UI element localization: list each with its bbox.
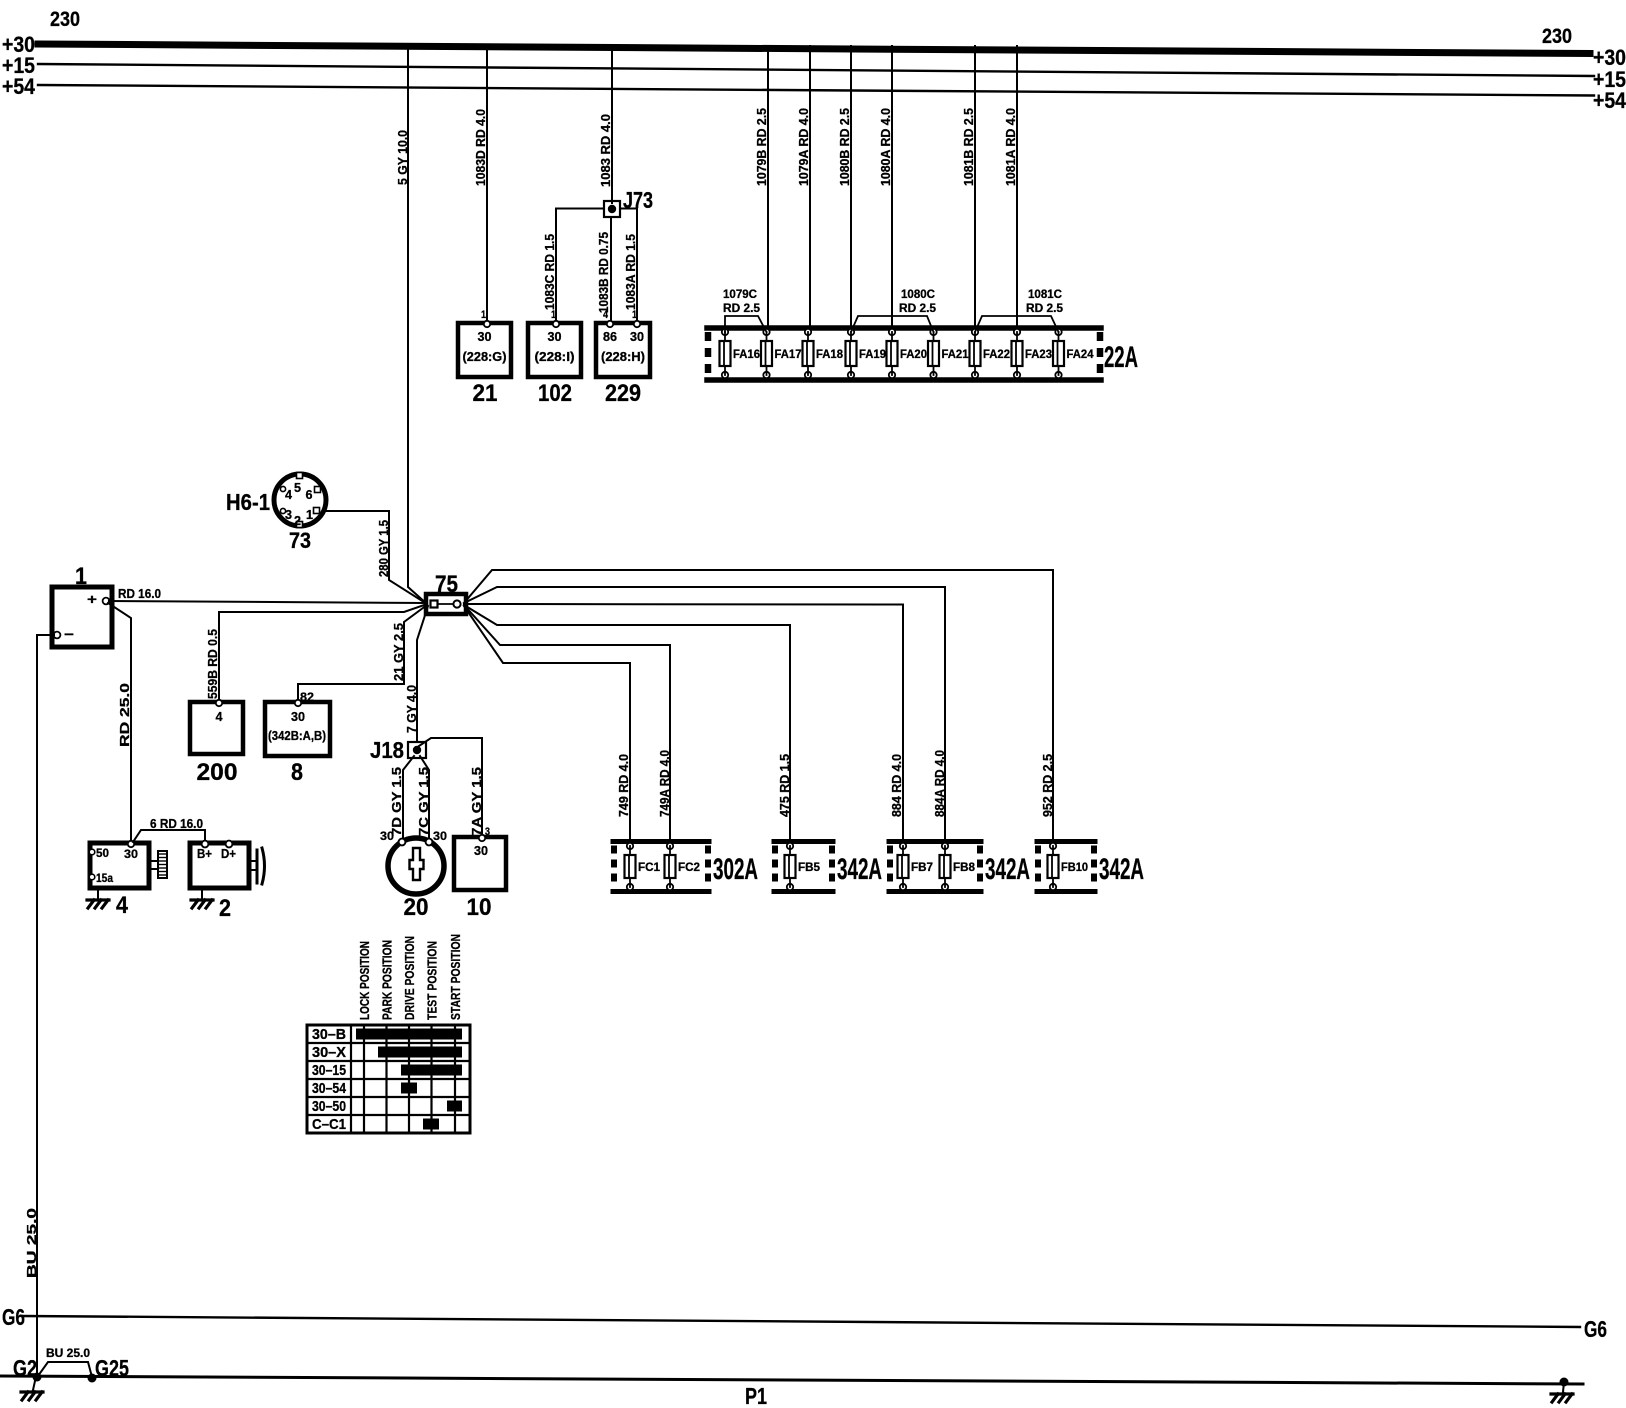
- jumper wire 1079C RD 2.5 (FA16 to FA17): [723, 287, 767, 332]
- svg-text:FB5: FB5: [798, 862, 821, 874]
- wire 1083A RD 1.5 (J73 to relay 229 pin 1/30): [620, 209, 638, 324]
- fusebox 342A with fuse FB5: [774, 842, 882, 892]
- svg-text:4: 4: [285, 488, 292, 502]
- wire 1080B RD 2.5 (+30 to fusebox 22A): [837, 46, 852, 330]
- svg-text:FA16: FA16: [733, 349, 760, 361]
- svg-text:230: 230: [1542, 25, 1572, 48]
- svg-text:102: 102: [538, 380, 572, 407]
- svg-text:B+: B+: [197, 847, 212, 861]
- svg-text:30: 30: [124, 847, 138, 861]
- connector 102 (228:I) pin 30: [528, 321, 581, 407]
- svg-text:2: 2: [294, 514, 301, 528]
- svg-text:5: 5: [294, 481, 301, 495]
- wire 1083B RD 0.75 (J73 to relay 229 pin 4/86): [596, 217, 611, 323]
- fuse FA19: [846, 329, 887, 378]
- fusebox 22A housing: [707, 328, 1138, 380]
- svg-text:G25: G25: [95, 1355, 129, 1381]
- svg-text:H6-1: H6-1: [226, 489, 270, 515]
- svg-text:1: 1: [551, 309, 556, 321]
- chassis ground at right end of P1: [1551, 1378, 1573, 1403]
- svg-text:1079C: 1079C: [723, 287, 757, 301]
- wire 7C GY 1.5 (J18 to switch 20 pin 30 right): [417, 756, 431, 840]
- svg-text:559B RD 0.5: 559B RD 0.5: [206, 629, 220, 699]
- svg-text:−: −: [64, 626, 74, 642]
- svg-text:FA18: FA18: [816, 349, 844, 361]
- jumper wire 1080C RD 2.5 (FA19 to FA21): [851, 287, 936, 332]
- svg-text:START POSITION: START POSITION: [448, 934, 463, 1020]
- svg-text:G6: G6: [1584, 1316, 1607, 1342]
- bus +15: [2, 53, 1626, 92]
- svg-text:1083B RD 0.75: 1083B RD 0.75: [596, 232, 611, 313]
- svg-text:+54: +54: [1593, 88, 1626, 113]
- svg-text:FC2: FC2: [678, 862, 700, 874]
- svg-text:FA23: FA23: [1025, 349, 1052, 361]
- svg-text:75: 75: [435, 571, 458, 598]
- svg-text:FA19: FA19: [859, 349, 886, 361]
- svg-text:50: 50: [96, 846, 109, 860]
- svg-text:FC1: FC1: [638, 862, 661, 874]
- svg-text:(342B:A,B): (342B:A,B): [268, 729, 326, 743]
- wire 280 GY 1.5 (H6-1 pin1 to junction 75): [326, 511, 427, 604]
- svg-text:1: 1: [306, 508, 313, 522]
- svg-text:3: 3: [485, 826, 490, 838]
- unit 200 pin 4: [190, 700, 243, 786]
- svg-text:229: 229: [605, 380, 641, 407]
- svg-text:73: 73: [289, 528, 311, 553]
- svg-text:342A: 342A: [1099, 853, 1144, 886]
- svg-text:1080A RD 4.0: 1080A RD 4.0: [878, 108, 893, 186]
- svg-text:30: 30: [630, 329, 644, 344]
- svg-text:7C GY 1.5: 7C GY 1.5: [417, 767, 431, 836]
- fuse FA18: [803, 329, 844, 378]
- wire 21 GY 2.5 (junction 75 to unit 8 pin 82): [298, 605, 427, 704]
- connector H6-1 (unit 73): [226, 473, 326, 554]
- svg-text:20: 20: [404, 894, 429, 921]
- svg-text:(228:G): (228:G): [463, 350, 507, 364]
- svg-text:1081A RD 4.0: 1081A RD 4.0: [1003, 108, 1018, 186]
- svg-text:30: 30: [548, 329, 562, 344]
- svg-text:30–15: 30–15: [312, 1062, 346, 1079]
- svg-text:FA17: FA17: [775, 349, 802, 361]
- svg-text:280 GY 1.5: 280 GY 1.5: [377, 520, 391, 577]
- svg-text:200: 200: [197, 759, 238, 786]
- svg-text:5 GY 10.0: 5 GY 10.0: [395, 130, 410, 185]
- starter motor 4 (pins 50 15a 30) with solenoid coil: [89, 841, 167, 919]
- svg-text:1080B RD 2.5: 1080B RD 2.5: [837, 108, 852, 186]
- svg-text:749 RD 4.0: 749 RD 4.0: [617, 754, 631, 817]
- svg-text:1079A RD 4.0: 1079A RD 4.0: [796, 108, 811, 186]
- wire 5 GY 10.0 (+30 to junction 75): [395, 46, 427, 604]
- wire 1081B RD 2.5 (+30 to fusebox 22A): [961, 46, 976, 330]
- svg-text:884A RD 4.0: 884A RD 4.0: [933, 750, 947, 817]
- svg-text:1083D RD 4.0: 1083D RD 4.0: [473, 109, 488, 186]
- fusebox 342A with fuse FB10: [1037, 842, 1144, 892]
- unit 10 pin 3/30: [454, 826, 506, 921]
- svg-text:FB8: FB8: [953, 862, 976, 874]
- svg-text:884 RD 4.0: 884 RD 4.0: [890, 754, 904, 817]
- wire 6 RD 16.0 (starter 30 to alternator B+): [133, 816, 205, 843]
- fuse FA24: [1053, 329, 1094, 378]
- svg-text:30–B: 30–B: [312, 1026, 346, 1043]
- svg-text:10: 10: [467, 894, 492, 921]
- svg-text:86: 86: [603, 329, 617, 344]
- svg-text:21: 21: [473, 380, 498, 407]
- fuse FA21: [928, 329, 969, 378]
- fuse FA22: [970, 329, 1011, 378]
- fusebox 302A with fuses FC1 FC2: [613, 842, 758, 892]
- svg-text:FA21: FA21: [942, 349, 970, 361]
- ground at alternator 2: [191, 888, 213, 908]
- wire 475 RD 1.5 (75 to fuse FB5): [464, 605, 792, 846]
- svg-text:7D GY 1.5: 7D GY 1.5: [390, 767, 404, 836]
- svg-text:+: +: [87, 591, 97, 607]
- wire RD 25.0 (battery + to starter 4 pin 30): [108, 603, 132, 843]
- svg-text:30: 30: [474, 843, 488, 858]
- svg-text:J18: J18: [370, 737, 404, 763]
- junction J18: [370, 737, 426, 763]
- svg-text:G2: G2: [13, 1355, 37, 1381]
- svg-text:FB10: FB10: [1061, 862, 1088, 874]
- svg-text:2: 2: [219, 895, 231, 922]
- svg-text:1081B RD 2.5: 1081B RD 2.5: [961, 108, 976, 186]
- svg-text:952 RD 2.5: 952 RD 2.5: [1041, 754, 1055, 817]
- svg-text:21 GY 2.5: 21 GY 2.5: [392, 623, 406, 681]
- connector 21 (228:G) pin 30: [458, 321, 511, 407]
- svg-text:30–50: 30–50: [312, 1098, 346, 1115]
- svg-text:P1: P1: [745, 1383, 767, 1408]
- alternator 2 (pins B+ D+) with pulley: [190, 841, 265, 922]
- jumper wire BU 25.0 (G2 to G25): [38, 1346, 92, 1377]
- svg-text:RD 2.5: RD 2.5: [1026, 301, 1063, 315]
- svg-text:4: 4: [116, 892, 129, 919]
- svg-text:1083A RD 1.5: 1083A RD 1.5: [623, 234, 638, 310]
- svg-text:342A: 342A: [837, 853, 882, 886]
- ignition switch 20 (pins 30 30): [380, 829, 447, 921]
- svg-text:LOCK POSITION: LOCK POSITION: [357, 941, 372, 1020]
- jumper wire 1081C RD 2.5 (FA22 to FA24): [975, 287, 1063, 332]
- svg-text:FB7: FB7: [911, 862, 933, 874]
- svg-text:7A GY 1.5: 7A GY 1.5: [470, 767, 484, 836]
- svg-text:30: 30: [433, 829, 447, 843]
- svg-text:G6: G6: [2, 1304, 25, 1330]
- svg-text:1079B RD 2.5: 1079B RD 2.5: [754, 108, 769, 186]
- wire 7A GY 1.5 (J18 to unit 10 pin 3): [419, 738, 484, 837]
- wire 884 RD 4.0 (75 to fuse FB7): [464, 604, 904, 846]
- wire 1081A RD 4.0 (+30 to fusebox 22A): [1003, 46, 1018, 330]
- relay 229 (228:H) pins 86 30: [596, 321, 650, 407]
- svg-text:DRIVE POSITION: DRIVE POSITION: [402, 936, 417, 1020]
- svg-text:6: 6: [306, 488, 313, 502]
- svg-text:FA24: FA24: [1067, 349, 1095, 361]
- wire 749 RD 4.0 (75 to fuse FC1): [464, 606, 631, 846]
- svg-text:4: 4: [603, 309, 609, 321]
- svg-text:30: 30: [478, 329, 492, 344]
- svg-text:1083 RD 4.0: 1083 RD 4.0: [598, 114, 613, 187]
- svg-text:30–54: 30–54: [312, 1080, 347, 1097]
- svg-text:1083C RD 1.5: 1083C RD 1.5: [542, 234, 557, 310]
- wire RD 16.0 (battery + to junction 75): [109, 586, 427, 603]
- svg-text:30–X: 30–X: [312, 1044, 346, 1061]
- wire 7D GY 1.5 (J18 to switch 20 pin 30 left): [390, 756, 414, 840]
- fuse FA23: [1012, 329, 1053, 378]
- svg-text:(228:I): (228:I): [535, 350, 575, 364]
- fuse FA20: [887, 329, 928, 378]
- svg-text:RD 2.5: RD 2.5: [723, 301, 760, 315]
- wire 952 RD 2.5 (75 to fuse FB10): [464, 570, 1055, 846]
- fusebox 342A with fuses FB7 FB8: [889, 842, 1030, 892]
- bus +54: [2, 74, 1626, 113]
- svg-text:D+: D+: [221, 847, 236, 861]
- wire 1083 RD 4.0 (+30 to J73): [598, 46, 613, 203]
- bus bar +30 (wire 230): [2, 8, 1626, 70]
- svg-text:302A: 302A: [713, 853, 758, 886]
- svg-text:1: 1: [75, 563, 87, 590]
- svg-text:749A RD 4.0: 749A RD 4.0: [658, 750, 672, 817]
- svg-text:FA20: FA20: [900, 349, 927, 361]
- svg-text:6 RD 16.0: 6 RD 16.0: [150, 816, 203, 831]
- svg-text:RD 16.0: RD 16.0: [118, 586, 161, 601]
- wire 1079A RD 4.0 (+30 to fusebox 22A): [796, 46, 811, 330]
- wire 884A RD 4.0 (75 to fuse FB8): [464, 587, 947, 846]
- ignition switch position table (rows 30-B 30-X 30-15 30-54 30-50 C-C1; columns LOCK PARK DRIVE TEST START): [307, 934, 470, 1133]
- svg-text:3: 3: [285, 508, 292, 522]
- svg-text:22A: 22A: [1104, 341, 1138, 374]
- wire 749A RD 4.0 (75 to fuse FC2): [464, 605, 672, 846]
- svg-text:RD 2.5: RD 2.5: [899, 301, 936, 315]
- svg-text:1: 1: [481, 309, 486, 321]
- svg-text:1081C: 1081C: [1028, 287, 1062, 301]
- svg-text:PARK POSITION: PARK POSITION: [380, 940, 395, 1020]
- svg-text:BU 25.0: BU 25.0: [46, 1346, 90, 1360]
- svg-text:1: 1: [632, 309, 637, 321]
- ground node G2 with chassis ground: [13, 1355, 43, 1400]
- wire 1083D RD 4.0 (+30 to unit 21) with pin 1: [473, 46, 488, 323]
- svg-text:+54: +54: [2, 74, 36, 99]
- svg-text:(228:H): (228:H): [601, 350, 645, 364]
- unit 8 (342B:A,B) pin 30: [265, 700, 330, 786]
- svg-text:RD 25.0: RD 25.0: [117, 683, 132, 747]
- svg-text:C–C1: C–C1: [312, 1116, 346, 1133]
- wire BU 25.0 (battery - to ground G2): [24, 635, 54, 1377]
- svg-text:FA22: FA22: [983, 349, 1010, 361]
- wire 1079B RD 2.5 (+30 to fusebox 22A): [754, 46, 769, 330]
- svg-text:30: 30: [291, 709, 305, 724]
- junction 75 (terminal block): [426, 571, 466, 614]
- wire 1080A RD 4.0 (+30 to fusebox 22A): [878, 46, 893, 330]
- battery 1 (+/- terminals): [52, 563, 112, 647]
- fuse FA17: [761, 329, 802, 378]
- wire 1083C RD 1.5 (J73 to unit 102) with pin 1: [542, 209, 604, 324]
- ground at starter 4: [87, 888, 109, 908]
- ground rail P1 (bottom bus): [0, 1376, 1583, 1408]
- svg-text:30: 30: [380, 829, 394, 843]
- svg-text:4: 4: [216, 709, 224, 724]
- ground rail G6: [2, 1304, 1607, 1342]
- ground node G25: [88, 1355, 130, 1383]
- svg-text:230: 230: [50, 8, 80, 31]
- svg-text:475 RD 1.5: 475 RD 1.5: [778, 754, 792, 817]
- wire 559B RD 0.5 (junction 75 to unit 200): [206, 604, 427, 702]
- svg-text:8: 8: [291, 759, 303, 786]
- fuse FA16: [720, 329, 761, 378]
- wire 7 GY 4.0 (junction 75 to J18): [405, 606, 428, 742]
- junction J73: [604, 187, 653, 217]
- svg-text:15a: 15a: [96, 871, 113, 885]
- svg-text:1080C: 1080C: [901, 287, 935, 301]
- svg-text:TEST POSITION: TEST POSITION: [425, 941, 440, 1020]
- svg-text:BU 25.0: BU 25.0: [24, 1208, 39, 1278]
- svg-text:7 GY 4.0: 7 GY 4.0: [405, 685, 419, 733]
- svg-text:342A: 342A: [985, 853, 1030, 886]
